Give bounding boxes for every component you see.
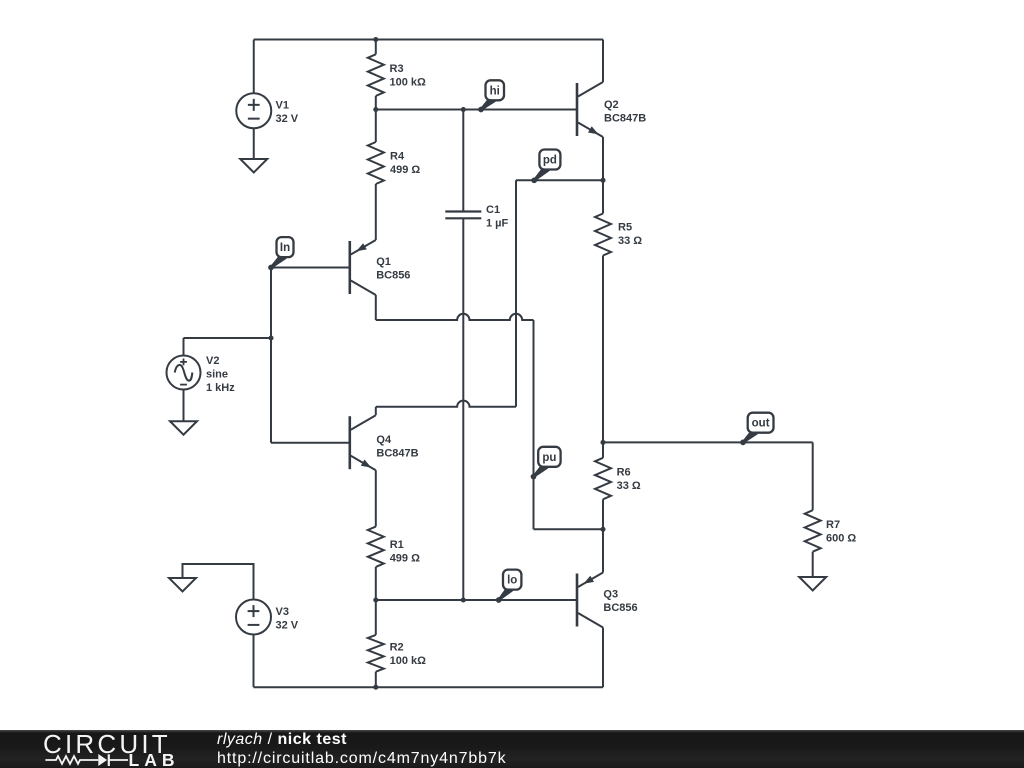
wire hi net horizontal (R4 top to C1 top to Q2 base) [376,109,577,111]
wire V1 bottom lead [253,128,255,159]
wire pd net vertical [515,180,517,406]
svg-text:R1: R1 [390,539,404,551]
wire V1 top lead [253,40,255,94]
svg-text:33 Ω: 33 Ω [618,235,642,247]
node lo flag [498,585,514,601]
wire pd net horizontal to R5 top [516,179,603,181]
svg-text:33 Ω: 33 Ω [617,480,641,492]
svg-text:R6: R6 [617,467,631,479]
svg-text:Q1: Q1 [376,256,391,268]
capacitor C1 [462,110,464,212]
svg-text:R5: R5 [618,222,632,234]
node junction R6 bottom / Q3 emitter [600,527,605,532]
svg-text:V2: V2 [206,355,219,367]
resistor R3 [375,40,377,55]
svg-text:499 Ω: 499 Ω [390,553,420,565]
svg-text:R4: R4 [390,151,405,163]
svg-text:In: In [280,242,290,254]
svg-text:1 kHz: 1 kHz [206,382,235,394]
wire top rail (V1+ to R3 top to Q2 collector) [254,39,603,41]
wire V2 bottom lead [183,390,185,422]
svg-text:Q3: Q3 [603,589,618,601]
svg-text:32 V: 32 V [276,113,299,125]
node pd flag [533,165,549,181]
node junction C1 top [461,107,466,112]
wire out net horizontal [603,441,813,443]
node In flag [270,253,287,269]
footer url [217,750,506,768]
wire V3 top lead up and left [183,564,254,600]
svg-text:BC847B: BC847B [376,448,418,460]
resistor R7 [812,442,814,510]
wire bottom rail [254,686,604,688]
svg-text:100 kΩ: 100 kΩ [390,655,427,667]
svg-text:Q4: Q4 [376,434,392,446]
svg-text:600 Ω: 600 Ω [826,533,856,545]
ground below R7 [799,577,826,591]
svg-text:BC847B: BC847B [604,113,646,125]
wire Q4 base [271,442,350,444]
svg-text:V1: V1 [276,100,289,112]
svg-text:R3: R3 [390,63,404,75]
svg-text:Q2: Q2 [604,99,619,111]
wire V3 bottom lead [253,635,255,688]
svg-text:pu: pu [542,452,556,464]
transistor Q1 BC856 (pnp) [348,241,351,294]
node junction R5/R6/out [600,440,605,445]
node junction V2 top [268,335,273,340]
svg-text:lo: lo [507,575,517,587]
node junction C1 bottom [461,597,466,602]
node junction R5 top [600,178,605,183]
resistor R1 [375,470,377,526]
svg-text:C1: C1 [486,204,500,216]
svg-text:BC856: BC856 [376,270,410,282]
svg-text:32 V: 32 V [276,620,299,632]
resistor R5 [602,180,604,213]
wire V2 to In node [184,337,272,339]
svg-text:pd: pd [543,155,557,167]
wire Q2 emitter down to pd junction [602,137,604,180]
node junction R3 top [373,37,378,42]
svg-text:out: out [752,418,770,430]
svg-text:V3: V3 [276,606,289,618]
resistor R4 [375,110,377,143]
node junction R3/R4 [373,107,378,112]
footer title: rlyach / nick test [217,731,347,749]
resistor R6 [595,458,611,500]
svg-text:R2: R2 [390,642,404,654]
voltage source V1 [236,93,271,128]
svg-text:499 Ω: 499 Ω [390,164,420,176]
CircuitLab logo resistor-diode symbol [45,756,98,764]
svg-text:sine: sine [206,369,228,381]
transistor Q2 BC847B (npn) [576,83,579,136]
wire V2 top lead [183,338,185,356]
svg-text:hi: hi [490,85,500,97]
node junction R1/R2 [373,597,378,602]
node pu flag [533,462,549,477]
voltage source V3 [236,600,271,635]
ground at V3 plus [169,578,196,592]
svg-text:R7: R7 [826,519,840,531]
wire Q2 collector up [602,40,604,83]
transistor Q3 BC856 (pnp) [576,574,579,627]
svg-text:BC856: BC856 [603,602,637,614]
resistor R2 [375,600,377,635]
svg-text:1 µF: 1 µF [486,218,509,230]
wire Q1 base [271,267,350,269]
node junction R2 bottom [373,685,378,690]
wire pd net horizontal to Q4 collector (hop over C1 wire) [376,401,516,407]
ground below V1 [240,159,267,173]
wire pu net: Q1 collector right, down, to R6 bottom (hops over C1 and pd wires) [375,295,377,320]
wire lo net horizontal (R1/R2 junction to Q3 base) [376,599,577,601]
svg-text:LAB: LAB [129,750,180,768]
transistor Q4 BC847B (npn) [348,416,351,469]
wire In net vertical [270,268,272,443]
node out flag [742,428,758,443]
wire Q3 collector down [602,628,604,688]
ground below V2 [170,421,197,435]
node hi flag [480,96,496,111]
wire Q4 collector up to pd wire [375,407,377,415]
svg-text:100 kΩ: 100 kΩ [390,77,427,89]
wire Q3 emitter up to R6 bottom [602,529,604,572]
